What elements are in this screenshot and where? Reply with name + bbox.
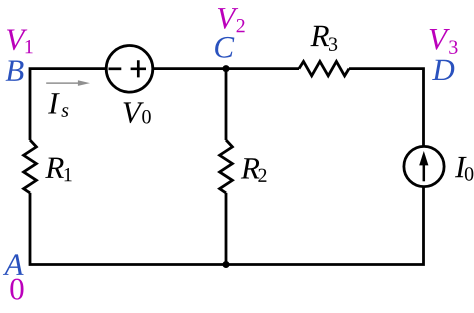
resistor R2 bbox=[220, 140, 233, 193]
junction bottom dot bbox=[223, 261, 230, 268]
current direction arrow Is bbox=[46, 80, 90, 86]
label R3 bbox=[310, 26, 337, 51]
resistor R1 bbox=[24, 140, 37, 193]
label Is bbox=[48, 93, 68, 117]
current source I0 bbox=[404, 146, 444, 186]
label R1 bbox=[45, 158, 71, 182]
node voltage label V3 bbox=[430, 29, 458, 54]
label R2 bbox=[241, 158, 267, 182]
node label B bbox=[6, 61, 24, 81]
label V0 bbox=[124, 102, 151, 123]
node label A bbox=[3, 254, 24, 274]
node voltage label V1 bbox=[7, 30, 33, 54]
wire middle vertical C to R2 bbox=[225, 69, 228, 140]
junction node C dot bbox=[223, 65, 230, 72]
wire top middle V0 to C to R3 bbox=[153, 67, 299, 70]
voltage source V0 bbox=[106, 46, 153, 93]
wire middle vertical R2 to bottom junction bbox=[225, 193, 228, 265]
resistor R3 bbox=[299, 61, 349, 75]
wire top-left corner: B down-stub and segment to V0 bbox=[30, 69, 107, 140]
wire bottom U: R1 to A corner, bottom wire, bottom-right corner up to I0 bbox=[30, 187, 424, 265]
node label C bbox=[215, 37, 234, 58]
label I0 bbox=[455, 157, 473, 181]
node label D bbox=[432, 60, 454, 80]
node label 0 (reference node) bbox=[10, 279, 23, 300]
wire top-right corner: R3 to D to I0 bbox=[349, 69, 424, 147]
node voltage label V2 bbox=[218, 8, 245, 32]
